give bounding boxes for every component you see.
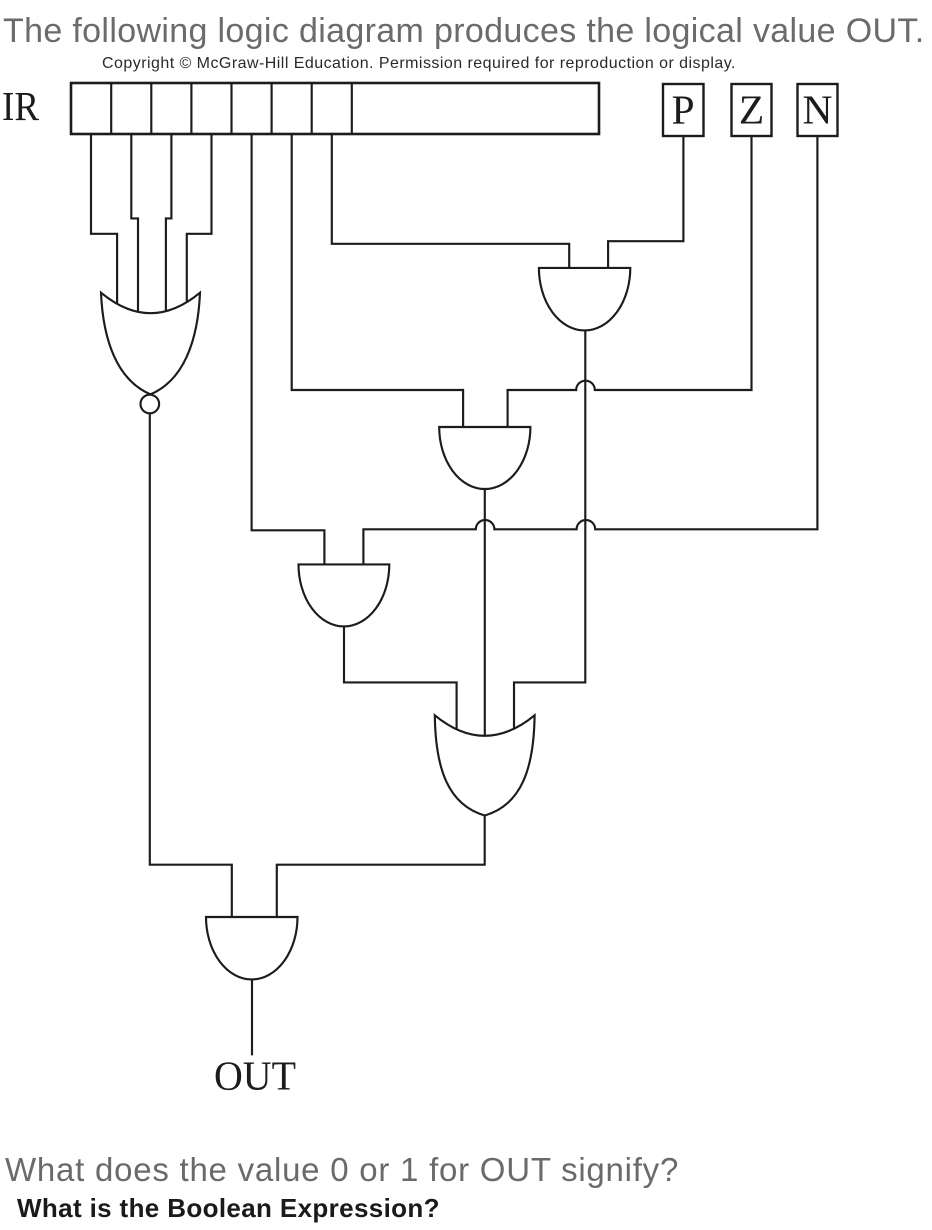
wire U6 output to OUT [251,979,253,1055]
wire IR[15] to NOR input 1 [91,134,117,310]
wire U2 output to OR U5 right input [514,330,585,742]
IR register box [71,83,599,134]
wire IR[13] to NOR input 3 [166,134,172,318]
svg-text:N: N [803,87,833,133]
wire IR[10] z-bit to AND U3 left input [292,134,463,432]
N flag box [798,84,838,136]
title [3,14,925,48]
AND gate U2 (p AND P) [539,268,630,331]
question 2 [17,1195,440,1221]
svg-text:Z: Z [739,87,764,133]
wire IR[14] to NOR input 2 [131,134,138,318]
wire P to AND U2 right input [608,136,683,272]
AND gate U4 (n AND N) [299,564,390,626]
OR gate U5 (3-input) [435,715,535,815]
wire N to AND U4 right input (hops over U3 and U2 outputs) [363,136,817,570]
copyright line [102,56,736,72]
wire Z to AND U3 right input (hop over U2 output) [508,136,752,432]
wire IR[12] to NOR input 4 [187,134,212,310]
register cell dividers [111,83,352,134]
wire U4 output to OR U5 left input [344,626,457,742]
svg-text:IR: IR [2,83,39,129]
AND gate U6 (final, output OUT) [206,917,298,979]
AND gate U3 (z AND Z) [439,427,530,489]
wire IR[11] n-bit to AND U4 left input [252,134,325,570]
Z flag box [732,84,772,136]
svg-text:P: P [671,87,694,133]
NOR gate U1 (4-input, IR[15:12]) [101,293,200,395]
wire IR[9] p-bit to AND U2 left input [332,134,569,272]
question 1 [5,1153,679,1186]
wire NOR U1 output to AND U6 left input [150,413,232,920]
P flag box [663,84,704,136]
wire OR U5 output to AND U6 right input [277,815,485,920]
NOR U1 inversion bubble [141,395,160,414]
wire U3 output to OR U5 middle input [484,488,486,742]
svg-text:OUT: OUT [214,1054,296,1100]
